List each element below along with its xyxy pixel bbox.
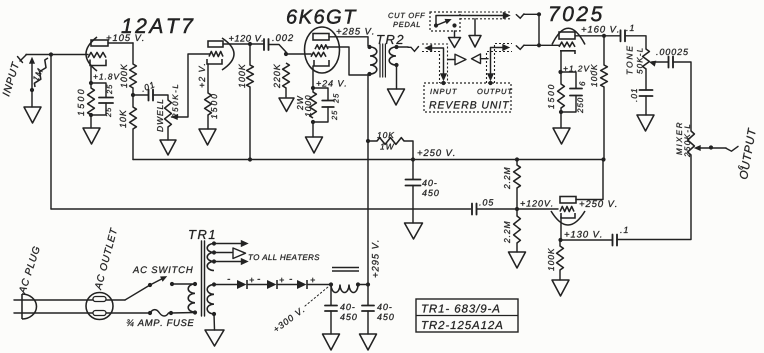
label OUTPUT bbox=[739, 127, 756, 179]
label 12AT7 bbox=[122, 18, 194, 33]
core TR2 line2 bbox=[382, 44, 384, 77]
node switch right bbox=[170, 282, 174, 286]
label 2W bbox=[297, 96, 303, 110]
plate V1B bbox=[208, 41, 223, 47]
node rail 2.2M bbox=[515, 157, 519, 161]
ground 220K bbox=[279, 98, 294, 112]
node 100K rail bbox=[248, 157, 252, 161]
wire pedal cable core bbox=[436, 16, 504, 26]
node +295 filter bbox=[366, 282, 370, 286]
wire reverb input core bbox=[428, 48, 444, 79]
wire mixer bottom bbox=[617, 155, 691, 240]
label PEDAL bbox=[393, 22, 420, 27]
label 1500 V1B bbox=[211, 94, 217, 119]
ground cable shield 2 bbox=[469, 36, 481, 48]
ground V1B cathode bbox=[199, 129, 216, 145]
wire rail to 40-450 bbox=[412, 160, 414, 180]
wire shield1 stub bbox=[454, 31, 456, 38]
node rail 40-450 bbox=[411, 157, 415, 161]
wire HV to ground bbox=[213, 314, 216, 330]
cable shield pedal top bbox=[460, 12, 511, 19]
switch AC lever bbox=[150, 278, 164, 285]
label 250K-L dwell bbox=[172, 85, 178, 118]
node 6K6 cathode bbox=[311, 86, 315, 90]
wire .00025 to mixer bbox=[673, 62, 691, 131]
node heater tap1 bbox=[212, 241, 216, 245]
pentode 6K6 envelope bbox=[305, 27, 340, 73]
transformer TR1 HV winding bbox=[207, 285, 214, 314]
node reverb OUTPUT bbox=[488, 81, 492, 85]
capacitor 25 V1A bbox=[99, 98, 113, 104]
label 1M bbox=[32, 68, 43, 82]
arrow DWELL wiper bbox=[172, 114, 178, 119]
wire 6K6 cathode bbox=[312, 66, 314, 92]
arrow open right bbox=[455, 54, 466, 65]
jack 7025 input top bbox=[516, 14, 524, 18]
wire 2.2M upper bottom bbox=[516, 188, 518, 209]
node TR2 secondary bottom bbox=[394, 63, 398, 67]
cathode V2A bbox=[560, 51, 575, 54]
node 6K6 grid bbox=[284, 52, 288, 56]
label 50K-L bbox=[637, 48, 643, 73]
label CUT OFF bbox=[388, 13, 425, 18]
label minus 3 bbox=[290, 248, 293, 310]
wire choke to +295 bbox=[358, 284, 368, 286]
wire 6K6 screen to TR2 bottom bbox=[328, 47, 367, 75]
label minus 1 bbox=[228, 248, 231, 310]
wire 6K6 bypass top bbox=[313, 88, 328, 100]
cathode V1A bbox=[90, 60, 106, 66]
grid V2A bbox=[559, 42, 575, 47]
wire plate to 100K bbox=[132, 43, 134, 64]
node V2A plate bbox=[602, 34, 606, 38]
label 250K-L mixer bbox=[684, 125, 690, 157]
label +120 V. bbox=[229, 35, 263, 42]
wire 10K to rail bbox=[132, 129, 134, 160]
wire 2.2M lower top bbox=[516, 209, 518, 216]
label DWELL bbox=[157, 100, 163, 132]
capacitor 40-450 B+ bbox=[406, 180, 421, 186]
wire V1B cathode ground bbox=[207, 115, 209, 129]
node fuse left bbox=[148, 311, 152, 315]
wire HV to diode1 bbox=[214, 284, 237, 286]
label 1000 bbox=[305, 95, 311, 116]
label 1500 V1A bbox=[78, 89, 84, 115]
label +285 V. bbox=[337, 28, 374, 35]
label 2.2M upper bbox=[504, 167, 510, 189]
wire reverb output core bbox=[491, 48, 507, 80]
label +1.2V. bbox=[564, 66, 592, 72]
label REVERB UNIT bbox=[429, 101, 509, 108]
wire V1B plate bbox=[223, 43, 250, 45]
wire 10K 1W to rail bbox=[404, 141, 413, 160]
wire V2A bypass top bbox=[561, 72, 577, 88]
node choke left bbox=[329, 282, 333, 286]
wire V1A plate bbox=[108, 42, 133, 44]
wire cap1 ground bbox=[330, 311, 332, 334]
cable shield reverb input bbox=[422, 44, 448, 83]
wire V2A cathode ground bbox=[560, 108, 562, 128]
wire V1A bypass top bbox=[91, 83, 106, 98]
capacitor .01 dwell bbox=[149, 90, 154, 101]
resistor 100K V2B bbox=[557, 246, 564, 270]
switch pedal lever bbox=[436, 21, 448, 26]
core TR1 line2 bbox=[204, 241, 206, 316]
fuse 3/4A bbox=[150, 310, 171, 316]
capacitor 40-450 no2 bbox=[362, 306, 374, 312]
wire diode2-3 bbox=[278, 284, 297, 286]
connector AC plug bbox=[22, 294, 37, 319]
wire 100K V2B lead bbox=[559, 240, 561, 246]
node reverb INPUT bbox=[441, 81, 445, 85]
arrow TONE wiper bbox=[650, 61, 656, 66]
box reverb unit bbox=[424, 83, 511, 112]
label 7025 bbox=[550, 6, 602, 21]
label 100K V1B bbox=[239, 64, 245, 88]
wire V2A plate bbox=[575, 35, 620, 37]
label +105 V. bbox=[107, 34, 144, 41]
plate V2B bbox=[560, 197, 576, 204]
wire V2B plate bbox=[576, 160, 603, 200]
wire 2.2M lower bottom bbox=[516, 243, 518, 252]
capacitor 25-25 6K6 bbox=[322, 101, 334, 108]
wire to output jack bbox=[711, 147, 726, 149]
ground TR2 secondary bbox=[388, 89, 405, 105]
wire TR2 sec to ground bbox=[396, 65, 398, 89]
arrow reverb output down bbox=[487, 74, 493, 81]
label .00025 bbox=[656, 49, 688, 55]
cathode 6K6 bbox=[314, 60, 329, 66]
node rail right bbox=[601, 157, 605, 161]
resistor 1M bbox=[34, 58, 48, 87]
node 2.2M junction bbox=[515, 207, 519, 211]
wire 6K6 bypass bottom bbox=[313, 107, 328, 122]
transformer TR2 secondary bbox=[389, 47, 396, 65]
ground 100K V2B bbox=[552, 280, 569, 296]
core TR2 line3 bbox=[384, 44, 386, 77]
wire 7025 input bus bbox=[538, 14, 540, 45]
wire tone wiper bbox=[652, 61, 668, 63]
node V1B plate bbox=[248, 42, 252, 46]
label 250 bbox=[577, 98, 583, 113]
arrow heater top bbox=[241, 240, 248, 246]
label 40- no1 bbox=[340, 304, 355, 310]
label +250 V. rail bbox=[418, 149, 455, 156]
wire V2A bypass bottom bbox=[561, 96, 576, 113]
label 25 lower bbox=[106, 108, 111, 117]
label 6K6GT bbox=[287, 10, 356, 24]
arrow heater bottom bbox=[241, 258, 248, 264]
wire heater bottom bbox=[214, 261, 243, 263]
arrow MIXER wiper bbox=[695, 145, 701, 150]
wire open right tail bbox=[448, 59, 455, 61]
label .1 top bbox=[626, 25, 633, 31]
ground input bbox=[24, 107, 41, 123]
node V2A cathode bbox=[558, 70, 562, 74]
label .05 bbox=[479, 199, 493, 205]
label 25 6K6 lower bbox=[332, 111, 337, 120]
triode V1B envelope bbox=[222, 38, 234, 70]
wire V2A cathode bbox=[560, 51, 562, 84]
node pedal switch left bbox=[434, 23, 438, 27]
ground 2.2M bbox=[509, 252, 526, 268]
diode D3 bbox=[297, 280, 307, 289]
resistor 100K V1B bbox=[247, 65, 254, 87]
label 10K V1A bbox=[120, 110, 126, 128]
wire bottom jack to node bbox=[524, 44, 539, 46]
potentiometer DWELL 250K-L bbox=[165, 100, 172, 127]
ground TR1 HV bbox=[205, 330, 224, 346]
resistor 1500 V2A bbox=[558, 84, 565, 108]
node TR2 primary bottom bbox=[367, 72, 371, 76]
node V1A cathode bottom bbox=[89, 113, 93, 117]
label TR2 type bbox=[422, 321, 502, 329]
wire cap2 ground bbox=[367, 311, 369, 334]
switch cut-off pedal box bbox=[430, 12, 460, 31]
node fuse right bbox=[169, 311, 173, 315]
label AC OUTLET bbox=[94, 227, 117, 290]
wire node to 10K bbox=[132, 95, 134, 107]
node TR1 primary top bbox=[193, 282, 197, 286]
label 2.2M lower bbox=[504, 221, 510, 243]
jack 7025 input bottom bbox=[516, 45, 524, 49]
wire cap1 top bbox=[330, 285, 332, 306]
wire TR2 sec to jack bbox=[397, 46, 409, 48]
label .01 tone bbox=[631, 89, 637, 102]
wire V1A bypass bottom bbox=[91, 103, 106, 115]
label 450 no1 bbox=[340, 314, 357, 320]
diode D1 bbox=[237, 280, 247, 289]
control grid 6K6 bbox=[311, 52, 326, 56]
capacitor .1 bottom bbox=[613, 235, 618, 246]
wire .01 tone ground bbox=[645, 96, 647, 115]
wire heater top bbox=[214, 243, 243, 245]
resistor 1500 V1B bbox=[205, 93, 212, 115]
node V2A cathode bottom bbox=[559, 110, 563, 114]
label 1500 V2A bbox=[548, 85, 554, 109]
cathode V1B bbox=[207, 59, 222, 64]
label plus 3 bbox=[311, 278, 315, 282]
label .1 bottom bbox=[620, 227, 627, 233]
triode V1A envelope bbox=[86, 37, 97, 71]
wire 100K V2B ground bbox=[559, 270, 561, 280]
wire diode1-2 bbox=[248, 284, 267, 286]
wire AC line1 left bbox=[14, 299, 125, 301]
slot AC outlet lower bbox=[93, 311, 106, 316]
label 220K bbox=[274, 64, 280, 88]
wire .05 to V2B grid bbox=[477, 208, 559, 210]
node 6K6 cathode bottom bbox=[311, 120, 315, 124]
resistor 1000 2W bbox=[310, 92, 317, 118]
label +250 V. V2B bbox=[580, 200, 617, 207]
wire tone pot bottom bbox=[645, 69, 647, 90]
arrow reverb input bbox=[425, 45, 432, 51]
label +2 V. bbox=[199, 64, 205, 87]
wire plate to 100K bbox=[603, 36, 605, 65]
ground 40-450 B+ bbox=[405, 223, 423, 239]
wire .1 to tone pot bbox=[625, 36, 646, 49]
label 40- B+ bbox=[422, 180, 437, 186]
wire switch to TR1 bbox=[172, 283, 195, 285]
label .002 bbox=[272, 34, 293, 41]
wire fuse to TR1 bbox=[171, 312, 195, 315]
label +160 V. bbox=[582, 26, 619, 33]
diode D2 bbox=[267, 280, 277, 289]
core TR2 line1 bbox=[379, 44, 381, 77]
ground 40-450 no2 bbox=[360, 334, 377, 350]
capacitor 40-450 no1 bbox=[325, 306, 337, 312]
ground .01 tone bbox=[637, 115, 654, 131]
label 25 upper bbox=[107, 85, 112, 94]
wire top jack to node bbox=[524, 13, 539, 15]
screen grid 6K6 bbox=[315, 45, 328, 49]
wire AC line2 left bbox=[14, 312, 150, 314]
ground V2A cathode bbox=[553, 128, 570, 144]
label 100K V2A bbox=[591, 64, 597, 87]
wire open left tail bbox=[481, 58, 489, 60]
capacitor .05 bbox=[472, 204, 477, 215]
capacitor .00025 bbox=[669, 57, 674, 68]
capacitor .1 top bbox=[621, 30, 626, 41]
node mixer out bbox=[709, 145, 713, 149]
label TONE bbox=[627, 46, 633, 74]
wire .01 to pot bbox=[153, 95, 168, 100]
transformer TR2 primary bbox=[370, 47, 377, 74]
capacitor 250-6 bbox=[570, 89, 582, 96]
wire V2B cathode bbox=[560, 217, 562, 240]
label 100K V2B bbox=[548, 248, 554, 271]
arrow AC switch bbox=[161, 277, 167, 282]
label plus 2 bbox=[280, 278, 284, 282]
wire 100K V2A to rail bbox=[603, 87, 605, 160]
wire node to .01 bbox=[133, 94, 148, 96]
wire +250V rail bbox=[133, 159, 604, 161]
label INPUT bbox=[2, 61, 19, 97]
ground cable shield 1 bbox=[449, 38, 461, 48]
label +295 V. bbox=[372, 241, 379, 278]
wire jack shorting contact bbox=[31, 64, 33, 91]
node 7025 input top bbox=[537, 12, 541, 16]
wire V1A cathode ground bbox=[90, 115, 92, 128]
wire .002 to 6K6 grid bbox=[269, 45, 287, 53]
label 10K 1W a bbox=[377, 132, 394, 138]
node .01 junction bbox=[131, 93, 135, 97]
arrow shorting contact bbox=[29, 58, 34, 64]
label AC SWITCH bbox=[133, 266, 193, 273]
node choke right bbox=[356, 282, 360, 286]
wire left bus down bbox=[50, 55, 52, 210]
transformer TR1 primary bbox=[188, 284, 195, 312]
arrow pedal lever bbox=[445, 19, 451, 24]
wire 6K6 cathode ground bbox=[312, 122, 314, 137]
wire 40-450 to ground bbox=[412, 186, 414, 224]
resistor 10K 1W bbox=[377, 138, 404, 145]
arrow reverb input down bbox=[440, 74, 446, 81]
wire plate to .002 bbox=[250, 43, 264, 45]
node 10K1W left bbox=[366, 139, 370, 143]
wire 6K6 plate to TR2 bbox=[329, 37, 368, 46]
resistor 2.2M lower bbox=[514, 216, 521, 243]
label .01 bbox=[141, 82, 155, 92]
inductor choke bbox=[331, 285, 358, 293]
wire cathode to .1 bbox=[561, 239, 613, 241]
node heater tap2 bbox=[212, 250, 216, 254]
node TR1 primary bottom bbox=[193, 310, 197, 314]
resistor 1500 V1A bbox=[88, 88, 95, 115]
wire to 10K 1W bbox=[368, 140, 377, 142]
wire dotted +300 bbox=[305, 287, 328, 306]
wire 100K V1B to rail bbox=[249, 87, 251, 160]
node V1A cathode bbox=[89, 81, 93, 85]
wire V1B cathode bbox=[207, 64, 209, 93]
label TO ALL HEATERS bbox=[249, 254, 320, 260]
plate 6K6 bbox=[313, 34, 329, 41]
arrow open left bbox=[472, 54, 481, 64]
node input junction bbox=[49, 52, 53, 56]
grid V1A bbox=[88, 52, 106, 57]
wire mixer wiper bbox=[697, 147, 711, 149]
node TR2 secondary top bbox=[394, 45, 398, 49]
wire cap2 top bbox=[367, 285, 369, 306]
plate V1A bbox=[91, 40, 108, 46]
wire V1A cathode bbox=[90, 66, 92, 89]
cathode V2B bbox=[561, 213, 575, 218]
resistor 2.2M upper bbox=[514, 165, 521, 188]
label +1.8V. bbox=[94, 74, 122, 80]
label TR1 type bbox=[422, 304, 499, 312]
label +300 V. bbox=[273, 307, 305, 333]
label 450 B+ bbox=[422, 190, 439, 196]
label +130 V. bbox=[565, 231, 602, 238]
label output jack mark bbox=[737, 165, 744, 173]
wire pot to ground bbox=[167, 127, 169, 140]
wire grid node to 6K6 bbox=[286, 53, 311, 55]
ground DWELL bbox=[160, 140, 176, 155]
label TR1 bbox=[189, 230, 214, 239]
potentiometer MIXER 250K-L bbox=[688, 131, 695, 155]
plate V2A bbox=[559, 32, 575, 39]
wire to input ground bbox=[31, 90, 33, 107]
wire to V2A grid bbox=[539, 44, 559, 46]
wire to switch bbox=[125, 285, 150, 300]
node 7025 input bottom bbox=[537, 43, 541, 47]
label reverb INPUT bbox=[430, 89, 457, 94]
label plus 1 bbox=[250, 278, 254, 282]
triode V2A envelope bbox=[552, 28, 585, 44]
arrow heater open bbox=[233, 248, 246, 259]
label TR2 bbox=[377, 35, 403, 44]
label MIXER bbox=[676, 123, 682, 155]
capacitor .002 bbox=[264, 39, 269, 50]
jack OUTPUT bbox=[726, 146, 738, 151]
capacitor .01 tone bbox=[640, 90, 653, 96]
node HV top bbox=[212, 282, 216, 286]
wire shield2 stub bbox=[474, 19, 476, 36]
resistor 100K V2A bbox=[601, 65, 608, 87]
node 1M bottom bbox=[30, 88, 34, 92]
wire 100K to node bbox=[132, 88, 134, 95]
cable shield reverb output bbox=[487, 44, 513, 84]
ground 6K6 cathode bbox=[306, 137, 323, 153]
label 3/4 AMP. FUSE bbox=[127, 319, 194, 326]
node switch left bbox=[148, 283, 152, 287]
label AC PLUG bbox=[18, 246, 40, 295]
core choke bbox=[332, 268, 359, 272]
slot AC outlet upper bbox=[93, 297, 106, 302]
wire 2.2M upper lead bbox=[516, 160, 518, 166]
node HV bottom bbox=[212, 312, 216, 316]
wire grid bus y209 bbox=[51, 208, 471, 210]
